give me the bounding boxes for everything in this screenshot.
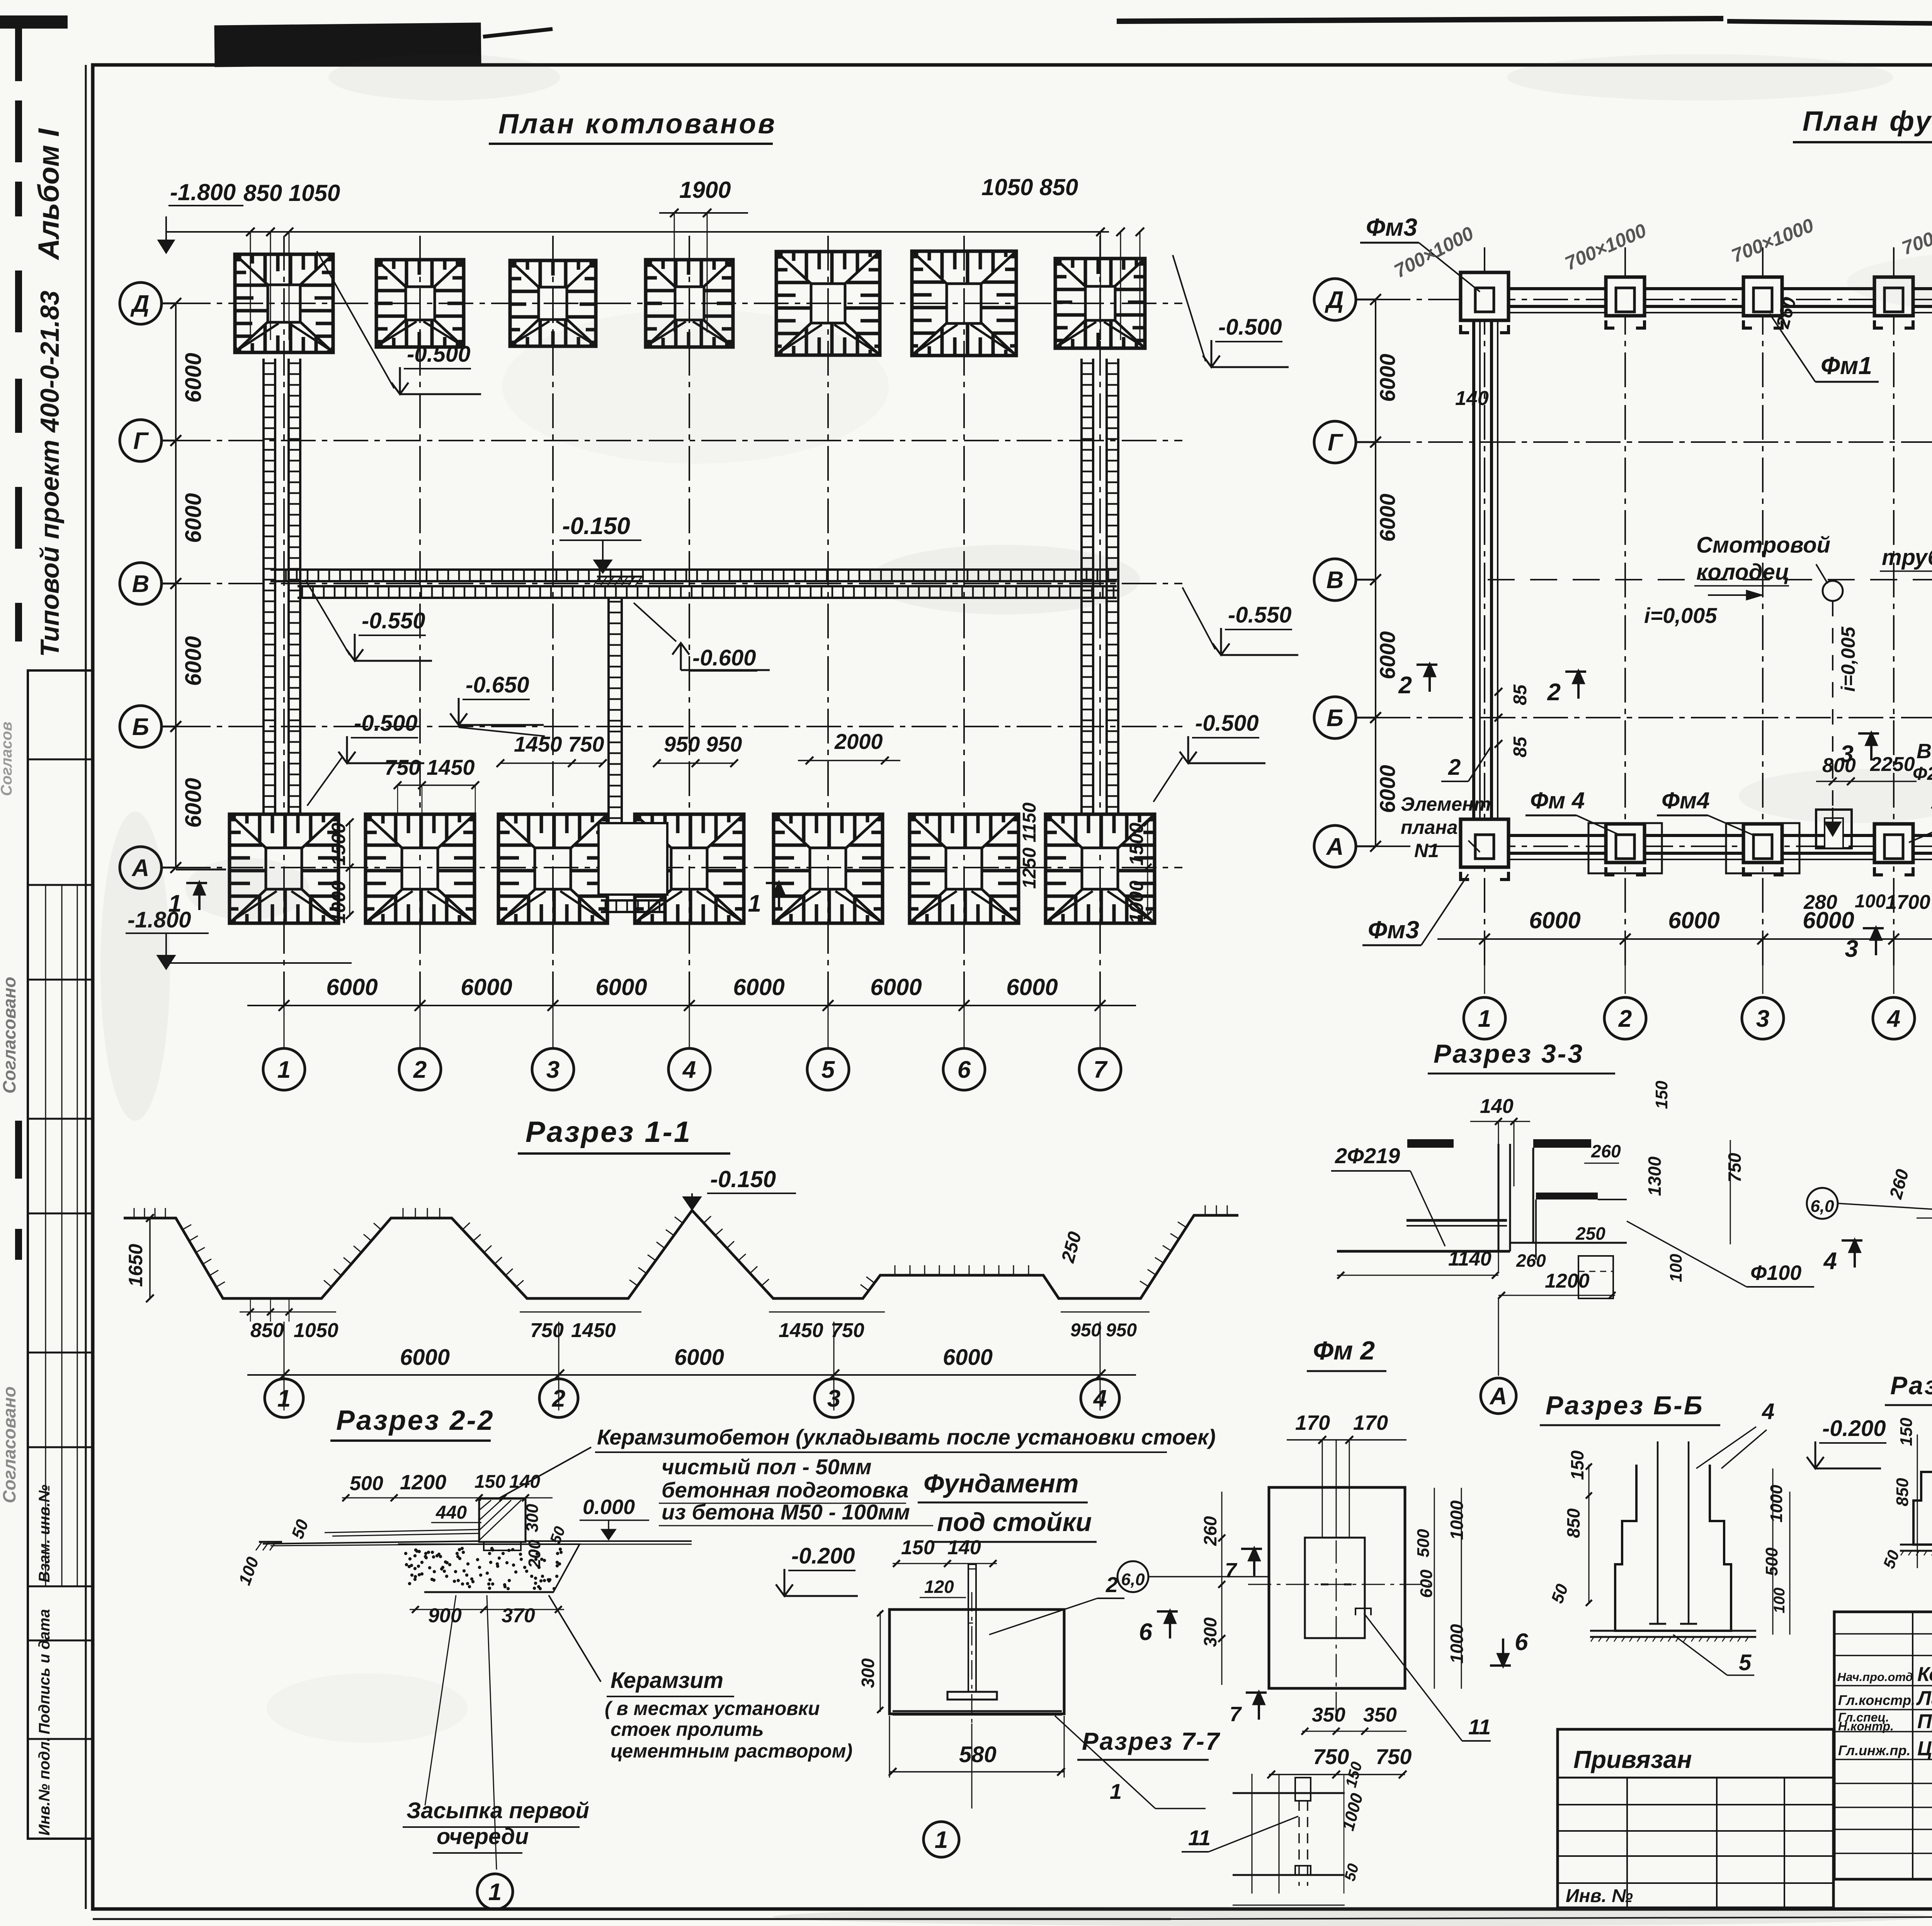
svg-text:1500: 1500 [1126,823,1147,866]
svg-text:Д: Д [1325,287,1344,313]
privyazan table [1558,1729,1833,1908]
svg-text:Согласовано: Согласовано [0,977,19,1094]
svg-text:-0.500: -0.500 [1218,315,1282,340]
section 7-7 drawing [1233,1792,1345,1794]
svg-text:Смотровой: Смотровой [1696,533,1830,558]
svg-text:6000: 6000 [1803,907,1854,933]
svg-text:6000: 6000 [1375,631,1400,679]
svg-text:6000: 6000 [461,974,512,1000]
svg-text:i=0,005: i=0,005 [1644,603,1717,628]
svg-text:750: 750 [1725,1153,1745,1182]
svg-text:Н.контр.: Н.контр. [1838,1719,1894,1733]
left plan vertical axes [283,236,285,1009]
svg-text:150: 150 [1567,1450,1587,1480]
svg-text:2: 2 [413,1057,427,1083]
svg-text:1: 1 [277,1057,291,1083]
left plan horizontal axes [176,303,1182,304]
scan mottle [328,54,560,100]
svg-text:2: 2 [1618,1006,1632,1032]
svg-text:170: 170 [1353,1411,1388,1434]
svg-text:2: 2 [1105,1572,1118,1597]
svg-text:Подпись и дата: Подпись и дата [36,1609,53,1734]
svg-text:6000: 6000 [1375,765,1400,813]
svg-text:-0.550: -0.550 [1228,602,1291,628]
svg-text:6000: 6000 [1006,974,1058,1000]
svg-text:Гл.инж.пр.: Гл.инж.пр. [1838,1742,1910,1758]
svg-text:140: 140 [947,1536,981,1559]
svg-text:500: 500 [350,1472,383,1495]
svg-text:6: 6 [957,1057,971,1083]
svg-text:1: 1 [1478,1006,1491,1032]
svg-text:11: 11 [1468,1715,1491,1739]
svg-text:6: 6 [1139,1619,1153,1645]
svg-text:Взам. инв.№: Взам. инв.№ [36,1485,53,1582]
svg-text:4: 4 [682,1057,696,1083]
section 2-2 drawing [263,1541,479,1544]
svg-text:7: 7 [1225,1559,1238,1582]
svg-text:В: В [1327,567,1344,594]
svg-text:6000: 6000 [870,974,922,1000]
svg-text:План фундаментов: План фундаментов [1803,106,1932,137]
svg-text:6,0: 6,0 [1810,1197,1834,1216]
svg-text:Цветков: Цветков [1917,1737,1932,1760]
svg-text:Фм1: Фм1 [1821,352,1872,379]
svg-text:очереди: очереди [437,1824,529,1849]
svg-text:5: 5 [821,1057,835,1083]
svg-text:850: 850 [1893,1478,1912,1506]
svg-text:2: 2 [1398,672,1412,699]
svg-text:А: А [1326,834,1344,860]
pipeline [1488,579,1932,580]
trenches [262,359,265,813]
svg-text:7: 7 [1230,1703,1242,1726]
foundation blocks row D [1461,272,1509,320]
svg-text:трубопровод Ф100: трубопровод Ф100 [1882,545,1932,570]
svg-text:1000: 1000 [1767,1485,1786,1523]
svg-text:170: 170 [1295,1411,1330,1434]
svg-text:1: 1 [935,1827,948,1853]
svg-text:цементным раствором): цементным раствором) [611,1740,852,1762]
svg-text:1: 1 [748,890,761,917]
svg-text:1000: 1000 [1447,1500,1467,1540]
svg-text:150: 150 [901,1536,935,1559]
svg-text:Фм 2: Фм 2 [1313,1336,1375,1365]
svg-text:i=0,005: i=0,005 [1837,626,1859,692]
svg-text:6000: 6000 [326,974,378,1000]
svg-text:6000: 6000 [181,353,206,403]
svg-text:Керамзит: Керамзит [611,1668,723,1693]
svg-text:1: 1 [488,1879,502,1906]
svg-text:-0.200: -0.200 [791,1543,855,1569]
svg-text:150: 150 [474,1472,505,1492]
svg-text:6000: 6000 [181,636,206,686]
svg-text:Б: Б [1327,705,1344,732]
svg-text:-0.650: -0.650 [466,672,529,698]
bottom dims right plan [1437,938,1932,940]
svg-text:750: 750 [831,1319,864,1342]
svg-text:6000: 6000 [1375,354,1400,402]
svg-text:плана: плана [1401,817,1458,838]
svg-text:Нач.про.отд: Нач.про.отд [1837,1670,1913,1684]
svg-text:А: А [1489,1383,1507,1410]
svg-text:( в местах установки: ( в местах установки [605,1698,820,1719]
svg-text:-0.150: -0.150 [562,513,630,539]
svg-text:-1.800: -1.800 [170,179,236,205]
svg-text:6000: 6000 [595,974,647,1000]
svg-text:Разрез 7-7: Разрез 7-7 [1082,1727,1221,1755]
section 1-1 profile [124,1210,1238,1298]
pit squares row D [235,254,333,352]
right plan axis circles [1314,279,1356,320]
svg-text:140: 140 [509,1472,540,1492]
svg-text:Типовой проект 400-0-21.83: Типовой проект 400-0-21.83 [35,291,65,657]
svg-text:N1: N1 [1414,840,1439,861]
svg-text:Фундамент: Фундамент [923,1469,1079,1498]
svg-text:1200: 1200 [1545,1270,1590,1292]
svg-text:Разрез 4-4: Разрез 4-4 [1890,1371,1932,1400]
svg-text:85: 85 [1510,736,1531,757]
svg-text:6000: 6000 [674,1345,724,1370]
svg-text:85: 85 [1510,684,1531,705]
foundation beams right plan [1485,287,1932,290]
svg-text:2: 2 [1547,679,1561,706]
svg-text:4: 4 [1093,1385,1107,1412]
svg-text:250: 250 [1575,1223,1605,1244]
svg-text:1900: 1900 [679,177,731,203]
svg-text:6000: 6000 [943,1345,993,1370]
section B-B drawing [1615,1465,1731,1631]
svg-text:6,0: 6,0 [1121,1570,1145,1589]
svg-text:1450 750: 1450 750 [514,732,604,756]
svg-text:750: 750 [1313,1744,1349,1769]
svg-text:Пронин: Пронин [1917,1710,1932,1733]
svg-text:Разрез 3-3: Разрез 3-3 [1434,1039,1584,1068]
svg-text:В: В [132,571,150,597]
svg-text:6000: 6000 [181,778,206,828]
staff table [1834,1612,1932,1879]
svg-text:100: 100 [1771,1587,1788,1613]
left plan axis circles [120,282,162,324]
svg-text:Колесов: Колесов [1917,1663,1932,1686]
svg-text:500: 500 [1414,1529,1433,1557]
svg-text:1200: 1200 [400,1471,446,1494]
svg-text:850 1050: 850 1050 [243,180,340,206]
right 6000 vertical dims [1375,299,1376,846]
svg-text:Лаш: Лаш [1916,1687,1932,1710]
svg-text:3: 3 [1756,1006,1769,1032]
svg-text:140: 140 [1480,1095,1514,1118]
svg-text:260: 260 [1516,1251,1546,1271]
scan artifacts [214,22,481,67]
svg-text:-0.500: -0.500 [407,342,470,367]
svg-text:120: 120 [924,1577,954,1597]
svg-text:стоек пролить: стоек пролить [611,1718,764,1740]
svg-text:11: 11 [1188,1826,1211,1850]
right plan vertical axes [1484,247,1485,970]
section 1-1 circles [265,1379,303,1417]
svg-text:300: 300 [858,1658,878,1688]
svg-text:Ф100: Ф100 [1750,1261,1801,1285]
top dim line [166,231,1109,233]
svg-text:300: 300 [1200,1617,1220,1647]
svg-text:-0.550: -0.550 [362,608,425,633]
svg-text:Керамзитобетон (укладывать пос: Керамзитобетон (укладывать после установ… [597,1425,1216,1449]
svg-text:950: 950 [1070,1320,1101,1341]
svg-text:1: 1 [1110,1779,1122,1803]
svg-text:под стойки: под стойки [937,1507,1092,1537]
section 4-4 drawing [1913,1434,1932,1545]
svg-text:100: 100 [1667,1254,1685,1282]
svg-text:Г: Г [133,428,149,454]
fundament pod stoiki drawing [889,1610,1064,1714]
vypusk pit [1816,810,1852,848]
svg-text:500: 500 [1762,1547,1781,1576]
right plan horizontal axes [1376,299,1932,300]
svg-text:Элемент: Элемент [1401,793,1491,815]
svg-text:900: 900 [428,1604,462,1627]
svg-text:200: 200 [525,1540,544,1569]
svg-text:260: 260 [1200,1516,1220,1546]
svg-text:-0.600: -0.600 [692,645,756,670]
svg-text:бетонная подготовка: бетонная подготовка [662,1478,908,1502]
column circles right plan [1464,997,1505,1039]
svg-text:6: 6 [1515,1629,1528,1655]
svg-text:4: 4 [1762,1399,1774,1424]
svg-text:чистый пол - 50мм: чистый пол - 50мм [662,1455,872,1479]
svg-text:3: 3 [827,1385,840,1412]
svg-text:6000: 6000 [1668,907,1719,933]
svg-text:Фм 4: Фм 4 [1530,788,1585,813]
svg-text:6000: 6000 [181,493,206,543]
svg-text:1000: 1000 [1447,1624,1467,1664]
svg-text:Разрез Б-Б: Разрез Б-Б [1546,1391,1704,1420]
svg-text:3: 3 [546,1057,560,1083]
svg-text:1700: 1700 [1886,891,1930,914]
svg-text:Альбом I: Альбом I [32,128,65,260]
left 6000 dims [175,303,177,868]
svg-text:5: 5 [1739,1650,1752,1675]
svg-text:150: 150 [1652,1080,1671,1109]
svg-text:6000: 6000 [733,974,784,1000]
svg-text:Разрез 1-1: Разрез 1-1 [526,1116,692,1148]
svg-text:Выпуск: Выпуск [1917,740,1932,763]
svg-text:1050: 1050 [294,1319,338,1342]
section marks 1 [176,869,226,871]
svg-text:100: 100 [1855,891,1886,912]
svg-text:1450: 1450 [571,1319,616,1342]
svg-text:950 950: 950 950 [664,732,742,756]
svg-text:2Ф219: 2Ф219 [1335,1143,1400,1168]
svg-text:Согласов: Согласов [0,721,15,796]
svg-text:Фм4: Фм4 [1662,788,1710,813]
svg-text:580: 580 [959,1742,997,1767]
svg-text:Д: Д [130,291,150,317]
svg-text:7: 7 [1094,1057,1108,1083]
svg-text:Инв. №: Инв. № [1566,1886,1633,1906]
svg-text:Согласовано: Согласовано [0,1387,19,1503]
svg-text:750: 750 [1376,1744,1412,1769]
bottom dims left plan [247,1005,1136,1006]
svg-text:140: 140 [1455,387,1489,410]
svg-text:1450: 1450 [779,1319,823,1342]
svg-text:3: 3 [1840,741,1854,767]
svg-text:150: 150 [1897,1417,1916,1446]
svg-text:1: 1 [277,1385,291,1412]
svg-text:350: 350 [1312,1704,1345,1726]
svg-text:600: 600 [1417,1569,1436,1598]
svg-text:2: 2 [1448,755,1461,780]
svg-text:Фм3: Фм3 [1368,916,1419,944]
svg-text:-0.500: -0.500 [354,711,417,736]
level marks left plan [317,251,394,388]
svg-text:370: 370 [502,1604,535,1627]
pit squares row A [230,814,338,923]
svg-text:Гл.констр.: Гл.констр. [1838,1692,1915,1708]
svg-text:1140: 1140 [1448,1248,1492,1270]
svg-text:Разрез 2-2: Разрез 2-2 [336,1405,495,1436]
svg-text:Фм3: Фм3 [1366,213,1417,241]
svg-text:План котлованов: План котлованов [498,109,777,140]
svg-text:750 1450: 750 1450 [384,755,475,779]
svg-text:0.000: 0.000 [583,1496,635,1519]
column circles left plan [263,1048,305,1090]
svg-text:-0.500: -0.500 [1195,711,1259,736]
svg-text:1650: 1650 [125,1244,146,1287]
svg-text:1500: 1500 [328,823,349,866]
svg-text:1300: 1300 [1645,1156,1665,1196]
svg-text:950: 950 [1106,1320,1137,1341]
svg-text:440: 440 [435,1502,467,1523]
svg-text:1000: 1000 [1126,881,1147,924]
svg-text:Г: Г [1328,429,1344,456]
svg-text:6000: 6000 [1529,907,1580,933]
svg-text:4: 4 [1823,1248,1837,1274]
svg-text:-0.200: -0.200 [1822,1416,1886,1441]
svg-text:300: 300 [523,1504,542,1532]
svg-text:Инв.№ подл.: Инв.№ подл. [36,1737,53,1836]
foundation blocks row A [1461,819,1509,867]
svg-text:2: 2 [552,1385,565,1412]
svg-text:4: 4 [1886,1006,1900,1032]
svg-text:350: 350 [1363,1704,1397,1726]
svg-text:Б: Б [132,714,149,740]
plaza pit between axes 3-4 [599,823,667,895]
svg-text:1000: 1000 [328,881,349,924]
svg-text:1050 850: 1050 850 [981,174,1078,200]
svg-text:260: 260 [1591,1141,1621,1161]
left stamp table [28,670,93,1839]
svg-text:Привязан: Привязан [1573,1746,1692,1773]
svg-text:6000: 6000 [1375,493,1400,542]
svg-text:6000: 6000 [400,1345,450,1370]
svg-text:850: 850 [1563,1508,1583,1538]
svg-text:850: 850 [250,1319,284,1342]
svg-text:1250 1150: 1250 1150 [1019,802,1040,889]
svg-text:Засыпка первой: Засыпка первой [406,1798,589,1823]
svg-text:колодец: колодец [1696,560,1789,585]
svg-text:2000: 2000 [834,729,883,754]
svg-text:-0.150: -0.150 [710,1166,776,1192]
